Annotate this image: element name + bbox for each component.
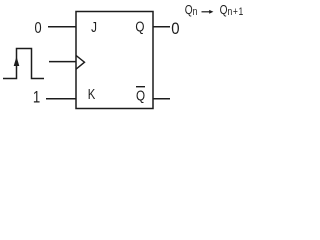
pin label Q-bar	[136, 87, 145, 104]
annotation arrow	[202, 10, 214, 14]
svg-text:J: J	[91, 19, 97, 36]
clock edge arrow	[14, 57, 20, 67]
wire K input	[46, 98, 76, 100]
svg-text:Q: Q	[136, 87, 145, 104]
svg-text:0: 0	[34, 20, 41, 38]
svg-text:K: K	[88, 86, 96, 103]
svg-text:0: 0	[171, 20, 179, 38]
svg-text:Qn: Qn	[185, 3, 198, 18]
svg-text:1: 1	[33, 88, 40, 107]
wire J input	[48, 26, 76, 28]
clock pulse symbol	[3, 49, 44, 79]
svg-text:Q: Q	[135, 18, 144, 35]
clock chevron	[76, 55, 85, 69]
wire CLK input	[49, 61, 76, 63]
wire Q output	[153, 26, 170, 28]
svg-text:Qn+1: Qn+1	[220, 3, 244, 18]
wire Q-bar output	[153, 98, 170, 100]
flip-flop U1 body	[76, 12, 153, 109]
